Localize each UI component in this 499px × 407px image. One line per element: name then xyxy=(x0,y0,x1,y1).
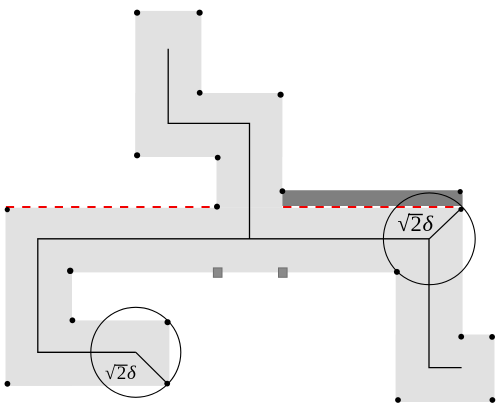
convex corner disc B bottom-left xyxy=(134,152,140,158)
polyline P main path xyxy=(38,239,462,368)
tube arm H (bottom-right horizontal strip) xyxy=(396,335,495,403)
red dashed link line, right part xyxy=(283,206,457,208)
convex corner disc H bottom-right xyxy=(490,397,496,403)
svg-text:2: 2 xyxy=(117,363,127,384)
concave corner dot c xyxy=(214,204,220,210)
tube arm B (upper horizontal strip) xyxy=(135,93,282,157)
concave corner dot g xyxy=(394,269,400,275)
dark gray bar (thickened link region) xyxy=(282,190,462,206)
annotation circle right (radius sqrt2 delta) xyxy=(383,193,475,285)
polyline Q branch (top) xyxy=(168,49,249,239)
convex corner disc EF bottom-left xyxy=(5,381,11,387)
tube arm E (left vertical strip) xyxy=(6,208,73,386)
small dark square s1 on lower tube edge xyxy=(213,268,222,277)
convex corner disc bar top-right xyxy=(458,189,463,194)
radius diagonal left xyxy=(136,352,167,383)
convex corner disc H top-right xyxy=(489,334,495,340)
tube arm C (middle vertical strip) xyxy=(217,93,283,208)
annotation circle left (radius sqrt2 delta) xyxy=(91,307,181,397)
red dashed link line, left part xyxy=(6,206,210,208)
convex corner disc A top-left xyxy=(134,10,140,16)
concave corner dot e xyxy=(67,268,73,274)
svg-text:δ: δ xyxy=(423,211,434,236)
convex corner disc H bottom-left xyxy=(395,397,401,403)
label sqrt(2)delta left xyxy=(105,363,137,384)
radius diagonal right xyxy=(429,208,462,239)
concave corner dot b xyxy=(215,155,221,161)
label sqrt(2)delta right xyxy=(398,211,434,236)
concave corner dot f xyxy=(70,317,76,323)
tube arm A (top vertical strip) xyxy=(135,11,201,157)
concave corner dot h xyxy=(458,334,464,340)
tube arm D (main horizontal strip) xyxy=(6,208,463,273)
tube arm G (right vertical strip) xyxy=(396,208,463,402)
convex corner disc BC top-right xyxy=(278,92,284,98)
concave corner dot a xyxy=(197,90,203,96)
svg-text:√: √ xyxy=(105,363,116,384)
convex corner disc A top-right xyxy=(197,10,203,16)
convex corner disc D top-left xyxy=(5,207,10,212)
svg-text:δ: δ xyxy=(127,363,137,384)
convex corner disc F bottom-right xyxy=(164,381,170,387)
convex corner disc D top-right xyxy=(458,207,463,212)
small dark square s2 on lower tube edge xyxy=(279,268,288,277)
concave corner dot d (bar top-left) xyxy=(280,188,286,194)
convex corner disc F top-right xyxy=(165,319,171,325)
tube arm F (bottom-left horizontal strip) xyxy=(6,320,170,386)
